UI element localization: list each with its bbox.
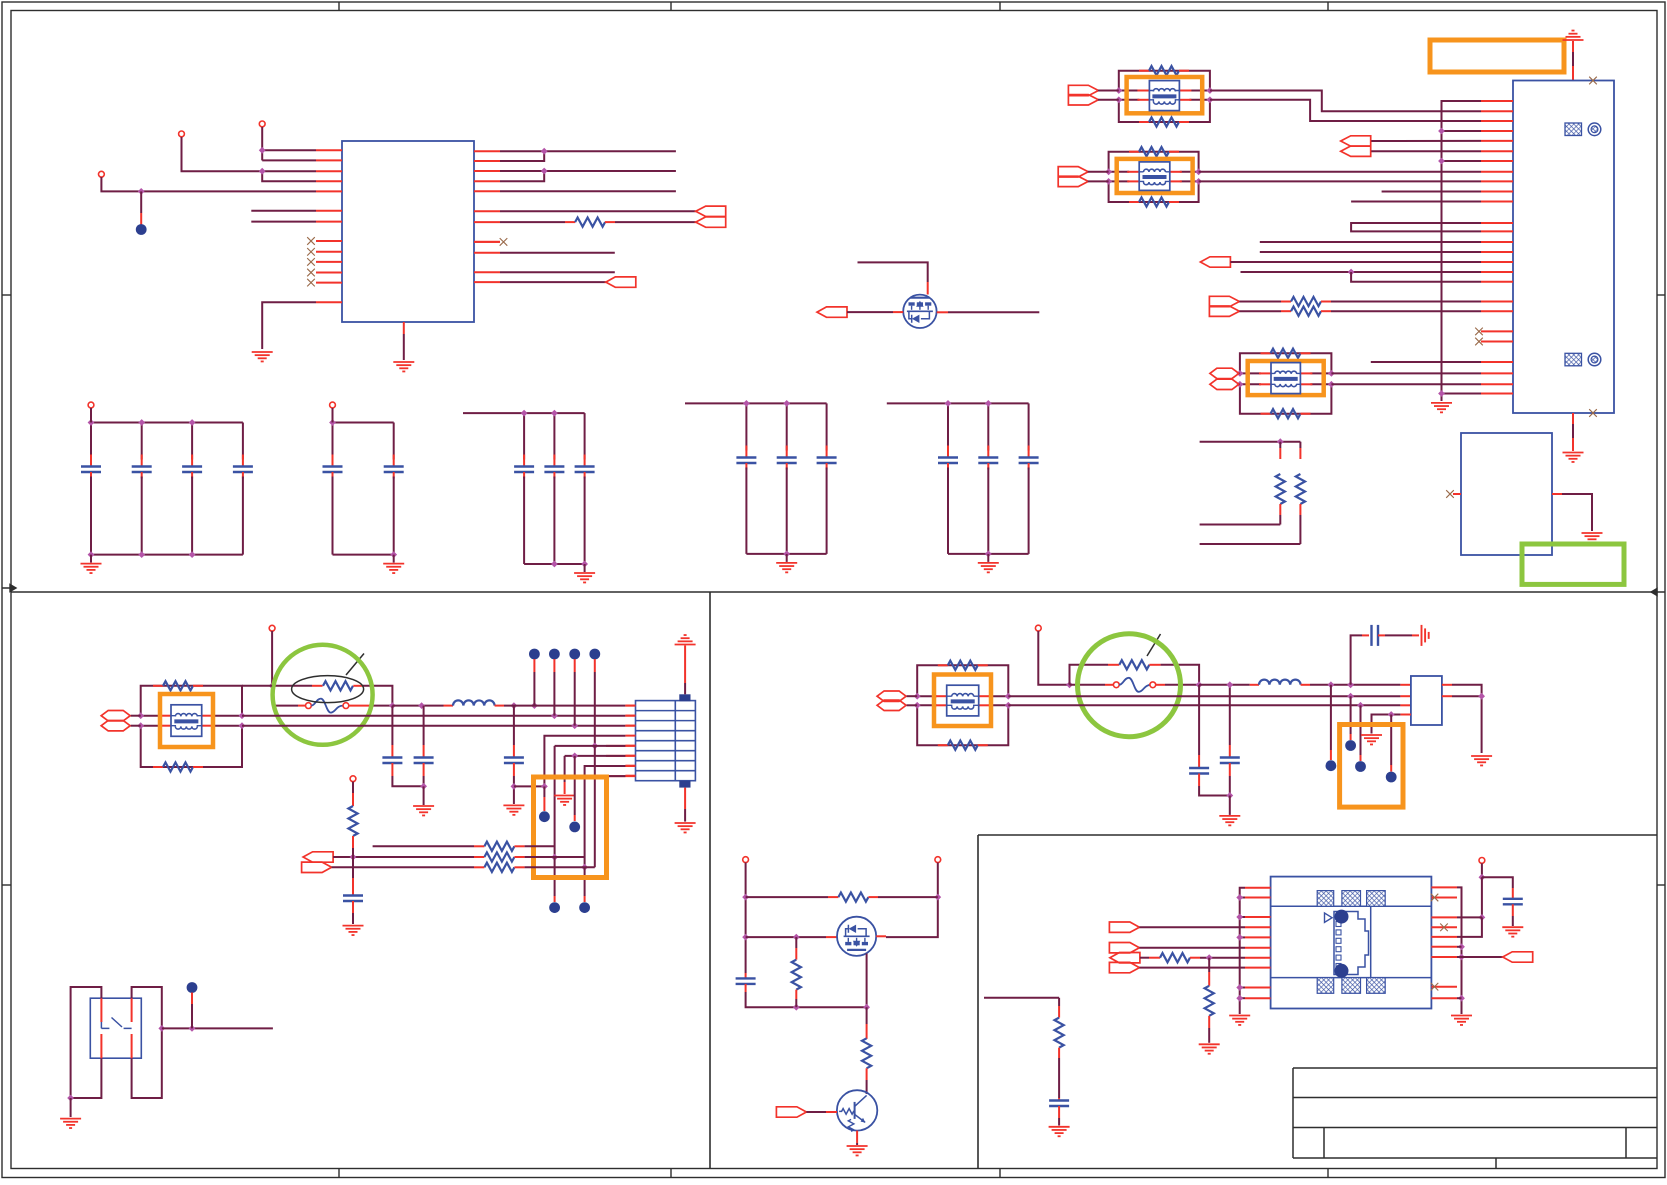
capacitor	[947, 403, 949, 450]
junction	[581, 864, 588, 871]
wire through resistor R1	[500, 221, 565, 223]
wire row 201	[1351, 201, 1481, 203]
annotation leader line	[1147, 634, 1161, 656]
cap bank top rail wire	[333, 422, 394, 424]
ground	[574, 572, 595, 574]
resistor bottom	[1261, 413, 1271, 415]
wire to spark row	[1038, 631, 1069, 685]
IC U2 body	[1461, 433, 1552, 555]
junction	[551, 854, 558, 861]
ground	[1451, 1015, 1472, 1017]
wire row to port	[1462, 956, 1503, 958]
wire switch output	[162, 1027, 273, 1029]
ground	[413, 805, 434, 807]
wire through resistor R14	[1140, 957, 1149, 959]
ground bus ground	[1441, 399, 1443, 401]
test point ball	[1355, 761, 1366, 772]
filter outer loop wire	[1109, 152, 1199, 172]
ground	[393, 361, 414, 363]
annotation leader line	[346, 654, 364, 676]
junction	[1438, 128, 1445, 135]
wire ball drop C	[1360, 705, 1362, 755]
wire R4 bottom	[1200, 524, 1281, 526]
wire pin5 vertical chain	[554, 746, 556, 857]
wire bracket rows 223/231	[1351, 223, 1481, 231]
junctions	[1105, 168, 1112, 175]
capacitor C6	[1229, 685, 1231, 745]
mounting hole top	[1588, 123, 1601, 136]
capacitor	[523, 413, 525, 459]
junction	[389, 702, 396, 709]
wire filter1 out A	[1210, 91, 1481, 112]
wire from open terminal	[269, 625, 275, 631]
junctions bottom rail	[783, 551, 790, 558]
junction	[541, 168, 548, 175]
capacitor C3	[513, 706, 515, 745]
ground	[1563, 452, 1584, 454]
junctions top rail	[521, 410, 528, 417]
wire row 272 with branch	[1241, 271, 1482, 273]
wire pin6 row to ground	[565, 755, 626, 757]
parallel resistors top rail wire	[1200, 441, 1301, 443]
wire node feed	[984, 997, 1059, 999]
capacitor C7 series	[1370, 625, 1372, 646]
junction	[1479, 914, 1486, 921]
wire ball drop D	[1390, 715, 1392, 766]
wire row B to connector	[392, 705, 443, 707]
wire bus row 161	[1442, 160, 1482, 162]
chassis ground	[1421, 625, 1423, 646]
capacitor	[393, 423, 395, 460]
junction	[259, 168, 266, 175]
ground small	[554, 795, 575, 797]
sheet divider vertical right block	[977, 835, 979, 1169]
junctions bottom rail	[390, 551, 397, 558]
junction	[350, 854, 357, 861]
common-mode choke	[1271, 363, 1300, 394]
wire terminal chain	[1481, 863, 1483, 877]
wire ball drop B	[1350, 696, 1352, 734]
wire connector right row2	[1442, 695, 1452, 697]
port pent right	[302, 862, 332, 872]
hatched pads bottom	[1317, 978, 1334, 994]
connector J2 pin stubs	[625, 705, 635, 707]
capacitor C4	[352, 878, 354, 896]
wire through resistor R3	[1239, 310, 1281, 312]
wire row 362	[1371, 361, 1481, 363]
ground	[343, 925, 364, 927]
no-connect marks right	[1431, 894, 1439, 902]
capacitor C5	[1198, 685, 1200, 755]
junctions	[1237, 370, 1244, 377]
frame zone tick marks bottom	[338, 1169, 340, 1178]
junctions top rail	[88, 419, 95, 426]
wire port row	[1139, 926, 1245, 928]
wire right rows to chain	[1457, 946, 1462, 948]
frame zone tick marks top	[338, 2, 340, 11]
wire IC bottom ground	[403, 322, 405, 334]
jack triangle	[1325, 913, 1333, 922]
wire row A through resistor	[272, 685, 312, 687]
port double arrow left	[696, 206, 726, 227]
title block cell dividers	[1324, 1128, 1626, 1169]
mounting pad hatch top	[1565, 123, 1582, 136]
junctions top rail	[945, 400, 952, 407]
cap bank bottom rail wire	[91, 554, 243, 556]
green highlight box	[1522, 544, 1624, 584]
port P4	[1109, 922, 1139, 932]
wire ball drop A	[1330, 685, 1332, 750]
wire line 2 through choke	[1109, 180, 1130, 182]
wire mosfet right	[876, 935, 886, 937]
wire through resistor R2	[1239, 301, 1281, 303]
test point ball	[1386, 772, 1397, 783]
wire line 1 through choke	[1119, 90, 1140, 92]
test point ball	[1326, 760, 1337, 771]
no-connect stub left	[1453, 493, 1461, 495]
junction	[541, 148, 548, 155]
wire line 1 through choke	[141, 715, 161, 717]
junctions bus	[1236, 894, 1243, 901]
test point ball	[569, 822, 580, 833]
IC U3 right pin stubs	[1431, 886, 1457, 888]
wire port to filter	[1088, 171, 1109, 173]
junction	[934, 894, 941, 901]
junction	[1066, 681, 1073, 688]
wire pin4 branch	[544, 736, 625, 787]
filter outer loop wire	[1240, 353, 1332, 373]
mounting pad hatch bottom	[1565, 353, 1582, 366]
wire row 252	[1260, 251, 1481, 253]
wire to ground	[1229, 796, 1231, 815]
cap bank top rail wire	[91, 422, 243, 424]
wire line 1 through choke	[1109, 171, 1130, 173]
resistor R6 row	[373, 845, 474, 847]
capacitor	[191, 423, 193, 460]
wire port to base	[806, 1111, 826, 1113]
ground	[1502, 926, 1523, 928]
jack symbol	[1334, 912, 1369, 975]
junctions	[914, 693, 921, 700]
wire ball4 drop	[594, 659, 596, 672]
red pin stubs choke	[1259, 372, 1271, 374]
wire port rows	[1371, 140, 1481, 142]
wire branch row 282	[1351, 272, 1481, 282]
wire net VIN	[101, 177, 316, 191]
wire filter3 out B	[1331, 383, 1481, 385]
wire pin5 row	[555, 745, 626, 747]
orange highlight box	[1248, 361, 1324, 395]
junction	[259, 147, 266, 154]
filter outer loop wire	[917, 665, 1008, 696]
port pent left	[303, 852, 333, 862]
resistor fuse-alt	[323, 681, 353, 690]
wire net VCC1	[261, 127, 263, 160]
orange highlight box top	[1430, 40, 1564, 72]
sheet divider vertical left half	[709, 592, 711, 1169]
wire cap node to vertical A	[514, 785, 545, 787]
IC U1 body	[342, 141, 474, 322]
junction	[1357, 702, 1364, 709]
wire U2 right to ground	[1552, 494, 1592, 531]
no-connect mark bottom edge	[1589, 409, 1597, 417]
junction	[1206, 954, 1213, 961]
test point ball	[187, 982, 198, 993]
bus branch rows	[1240, 897, 1245, 899]
port P1 open terminal	[259, 121, 265, 127]
ground	[60, 1118, 81, 1120]
wire vertical ball3 chain	[574, 756, 576, 815]
wire ground lead	[393, 555, 395, 563]
ground	[675, 822, 696, 824]
cap bank bottom rail wire	[333, 554, 394, 556]
wire row	[500, 271, 615, 273]
ground	[1229, 1015, 1250, 1017]
wire row2 to connector pin3	[242, 725, 625, 727]
wire port to filter	[1238, 372, 1241, 374]
junction	[1479, 874, 1486, 881]
connector J1 pin stubs	[1481, 100, 1513, 102]
green highlight circle	[1078, 634, 1181, 737]
port P3 open terminal	[99, 171, 105, 177]
wire filter1 out B	[1210, 100, 1481, 121]
port arrow left	[606, 277, 636, 287]
port P2 open terminal	[179, 131, 185, 137]
ground	[503, 804, 524, 806]
no-connect stub right	[474, 241, 500, 243]
frame center arrow left	[2, 585, 16, 592]
filter outer loop wire	[141, 686, 242, 716]
capacitor	[987, 403, 989, 450]
wire row F2	[1008, 695, 1400, 697]
wire bus row 393.5	[1442, 393, 1482, 395]
input port arrow pair	[1068, 85, 1098, 105]
wire pin7 chain	[585, 766, 626, 867]
junction	[1226, 681, 1233, 688]
junction	[189, 1025, 196, 1032]
resistor R11 vertical	[795, 937, 797, 948]
junctions bottom rail	[88, 551, 95, 558]
wire row F1	[1199, 684, 1250, 686]
orange highlight box	[934, 675, 991, 727]
wire port row	[1139, 947, 1245, 949]
wire to top capacitor	[1351, 635, 1362, 684]
wire mosfet right	[937, 311, 948, 313]
wire port to filter	[907, 695, 918, 697]
resistor R13 vertical	[1058, 998, 1060, 1006]
ground	[252, 351, 273, 353]
junctions	[137, 712, 144, 719]
resistor top	[1139, 70, 1149, 72]
wire ground lead	[987, 554, 989, 562]
junctions	[1328, 681, 1335, 688]
ground	[1471, 755, 1492, 757]
cap bank bottom rail wire	[746, 553, 826, 555]
inductor L2	[1250, 684, 1259, 686]
wire pin4 to ground	[1400, 714, 1411, 716]
no-connect mark top edge	[1589, 77, 1597, 85]
wire connector bottom ground	[1572, 413, 1574, 424]
inductor L1	[444, 705, 454, 707]
cap bank bottom rail wire	[524, 563, 585, 565]
switch left loop wire	[71, 987, 102, 1098]
IC U3 body	[1271, 877, 1432, 1009]
wire port to mosfet	[847, 311, 893, 313]
wire down to connector	[1572, 41, 1574, 52]
orange highlight box	[1340, 725, 1403, 808]
port arrow row 262	[1200, 257, 1230, 267]
jack balls	[1335, 910, 1349, 924]
wire filter top rail extension	[242, 685, 272, 687]
capacitor	[745, 403, 747, 450]
ground bus vertical wire	[1442, 101, 1482, 399]
wire filter3 out A	[1331, 372, 1481, 374]
common-mode choke	[1149, 81, 1179, 111]
junction	[158, 1025, 165, 1032]
capacitor	[90, 423, 92, 460]
sheet divider horizontal	[11, 591, 1657, 593]
wire port to filter	[1098, 90, 1119, 92]
wire row F3	[1008, 704, 1400, 706]
port arrow pair rows 301/311	[1209, 296, 1239, 316]
input port hex pair	[877, 691, 906, 701]
resistor R3	[1291, 307, 1321, 316]
wire row 242	[1260, 241, 1481, 243]
junction	[1196, 681, 1203, 688]
wire ball4 vertical chain	[594, 746, 596, 867]
junction	[571, 753, 578, 760]
frame zone tick marks left	[2, 294, 11, 296]
orange highlight box	[160, 694, 213, 747]
port P8	[1503, 952, 1533, 962]
resistor R1	[575, 218, 605, 227]
no-connect marks left pins	[307, 237, 315, 245]
red pin stubs choke	[935, 695, 947, 697]
wire pin8 chain	[595, 775, 626, 777]
transistor Q2 mosfet	[837, 917, 876, 956]
wire row1 to connector pin2	[242, 715, 625, 717]
junctions right chain	[1458, 943, 1465, 950]
switch S1 body	[90, 998, 141, 1058]
cap bank top rail wire	[463, 412, 585, 414]
wire gate feed	[858, 262, 928, 282]
wire stub to test point	[140, 191, 142, 213]
cap bank top rail wire	[887, 402, 1029, 404]
wire mosfet source down	[866, 954, 868, 1008]
junctions bottom rail	[985, 551, 992, 558]
junctions	[742, 894, 749, 901]
wire terminal down	[1481, 877, 1483, 917]
resistor R4 vertical	[1279, 442, 1281, 448]
ground	[1582, 532, 1603, 534]
input port hex pair	[1210, 368, 1239, 378]
ground bus left	[1240, 888, 1245, 1014]
wire row	[500, 252, 615, 254]
open terminal pullup	[350, 776, 356, 782]
filter outer loop wire	[1119, 71, 1210, 91]
wire to ball	[543, 786, 545, 797]
wire to cap C10	[1482, 877, 1513, 888]
junction	[1438, 390, 1445, 397]
wire ball3 drop	[574, 659, 576, 672]
wire line 1 through choke	[917, 695, 937, 697]
wire row pin3	[1457, 916, 1482, 918]
wire data row 2 join	[500, 151, 544, 161]
resistor bottom	[153, 766, 163, 768]
common-mode choke	[1139, 162, 1170, 191]
wire line 1 through choke	[1240, 372, 1261, 374]
wire row A right	[353, 685, 363, 687]
capacitor C2	[423, 706, 425, 745]
spark gap row B	[272, 705, 298, 707]
resistor R12 vertical	[866, 1007, 868, 1024]
capacitor	[584, 413, 586, 459]
IC U3 left pin stubs	[1245, 887, 1271, 889]
wire down to row5	[1457, 917, 1482, 937]
spark gap	[1070, 684, 1106, 686]
port P5	[1109, 943, 1139, 953]
ground	[383, 563, 404, 565]
junction	[551, 712, 558, 719]
wire IC ground pin	[262, 302, 316, 349]
junction	[1277, 438, 1284, 445]
resistor R8 row	[332, 866, 474, 868]
orange highlight box	[1127, 77, 1203, 113]
wire ball drop	[191, 993, 193, 1005]
red pin stubs choke	[1127, 171, 1139, 173]
junctions row B	[418, 702, 425, 709]
long red pin leads rows 5-8	[606, 745, 636, 747]
green highlight circle	[273, 645, 373, 745]
wire left vertical	[745, 863, 747, 974]
ground	[847, 1145, 868, 1147]
junction	[591, 743, 598, 750]
connector J2 top tab	[679, 694, 690, 701]
switch S1 symbol	[101, 1018, 131, 1029]
wire row 262	[1230, 261, 1481, 263]
capacitor	[242, 423, 244, 460]
port P7	[1109, 962, 1139, 972]
resistor bottom	[938, 744, 948, 746]
wire gate row	[746, 936, 826, 938]
wire to bottom ball	[584, 867, 586, 896]
port arrow left	[817, 307, 847, 317]
test point ball	[549, 902, 560, 913]
wire line 2 through choke	[1240, 383, 1261, 385]
junctions bottom rail	[551, 561, 558, 568]
junction	[269, 682, 276, 689]
wire connector right row1	[1442, 684, 1452, 686]
wire row 191	[1382, 191, 1481, 193]
wire port row	[1139, 967, 1245, 969]
junctions top rail	[743, 400, 750, 407]
wire switch ground	[70, 1098, 72, 1117]
ground	[776, 562, 797, 564]
open terminal top	[1479, 858, 1485, 864]
open terminal fuse feed	[1035, 625, 1041, 631]
capacitor	[553, 413, 555, 459]
wire right pin1 chain	[1457, 887, 1462, 1014]
mounting hole bottom	[1588, 353, 1601, 366]
junction	[420, 783, 427, 790]
annotation ellipse	[292, 676, 364, 703]
junction	[541, 783, 548, 790]
wire bus row 131	[1442, 130, 1482, 132]
wire filter2 out B	[1199, 180, 1481, 182]
wire emitter ground	[856, 1131, 858, 1143]
capacitor	[332, 423, 334, 460]
test point ball	[539, 811, 550, 822]
